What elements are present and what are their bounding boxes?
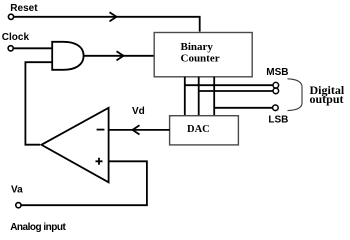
wire bit-2 output — [199, 90, 273, 92]
block DAC — [170, 116, 239, 145]
wire AND gate output to counter — [84, 55, 155, 57]
wire counter output bit line 1 (vertical to DAC) — [184, 77, 186, 116]
node LSB terminal — [273, 105, 279, 111]
wire counter output bit line 3 (vertical to DAC) — [213, 77, 215, 116]
plus sign (non-inverting input) — [96, 158, 103, 165]
svg-text:output: output — [310, 92, 344, 106]
arrowhead on AND output wire — [117, 51, 124, 60]
node bit-2 terminal — [273, 88, 279, 94]
node Clock terminal — [8, 46, 13, 51]
svg-text:Vd: Vd — [132, 106, 145, 117]
wire Clock to AND gate — [14, 47, 52, 49]
minus sign (inverting input) — [97, 129, 105, 131]
arrowhead on Vd wire (pointing left) — [133, 125, 140, 134]
svg-text:MSB: MSB — [266, 67, 288, 78]
svg-text:Va: Va — [11, 184, 23, 195]
op-amp comparator U2 — [41, 108, 108, 183]
node Va terminal — [16, 203, 21, 208]
arrowhead on Reset wire — [110, 12, 117, 21]
svg-text:Clock: Clock — [2, 32, 30, 43]
wire LSB output — [214, 107, 272, 109]
node MSB terminal — [273, 82, 279, 88]
wire DAC output Vd to comparator inverting input — [109, 129, 170, 131]
wire counter output bit line 2 (vertical to DAC) — [198, 77, 200, 116]
svg-text:DAC: DAC — [187, 124, 210, 135]
wire Va to comparator non-inverting input — [22, 161, 147, 205]
wire comparator output feedback to AND gate lower input — [25, 62, 52, 145]
block Binary Counter — [154, 33, 252, 77]
wire MSB output — [185, 84, 273, 86]
node Reset terminal — [8, 14, 13, 19]
svg-text:Binary: Binary — [181, 41, 214, 53]
svg-text:Analog input: Analog input — [10, 222, 66, 233]
svg-text:LSB: LSB — [268, 115, 288, 126]
svg-text:Reset: Reset — [10, 3, 38, 14]
brace for digital output — [288, 79, 303, 111]
wire Reset to counter top — [14, 17, 200, 32]
AND gate U1 — [52, 42, 83, 70]
svg-text:Counter: Counter — [181, 53, 220, 65]
